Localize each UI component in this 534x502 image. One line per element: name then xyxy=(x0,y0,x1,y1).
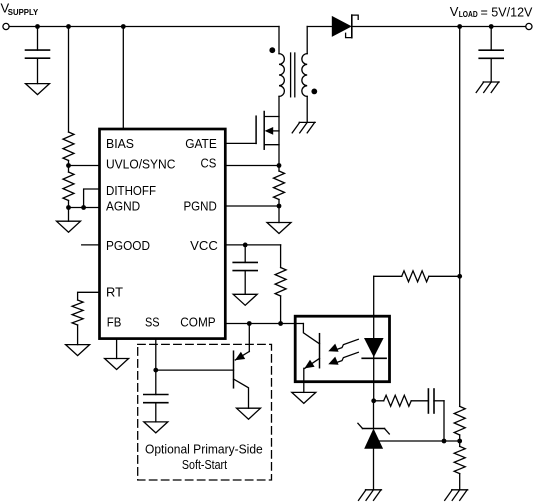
svg-text:SUPPLY: SUPPLY xyxy=(8,8,39,17)
capacitor output xyxy=(479,27,503,83)
resistor current sense xyxy=(274,171,285,200)
wire opto LED anode xyxy=(374,275,402,277)
wire LED bias resistor to VLOAD xyxy=(429,275,460,277)
wire PGND pin xyxy=(225,205,279,207)
wire UVLO/SYNC pin xyxy=(69,165,100,167)
transformer T1 secondary winding xyxy=(302,27,307,123)
capacitor VCC bypass xyxy=(233,245,257,294)
node DITHOFF junction xyxy=(81,205,86,210)
node VSUPPLY label xyxy=(1,1,39,17)
input terminal xyxy=(3,23,9,29)
svg-text:Soft-Start: Soft-Start xyxy=(182,457,228,472)
wire RC mid xyxy=(411,400,428,402)
diode opto LED xyxy=(362,276,386,401)
transistor Q2 soft-start PNP xyxy=(234,351,250,408)
wire COMP to transistor emitter xyxy=(248,324,250,352)
ground divider chassis xyxy=(445,490,468,501)
svg-text:SS: SS xyxy=(145,315,160,330)
output terminal xyxy=(526,23,532,29)
op-amp U1 controller IC box xyxy=(100,129,226,339)
wire pull-up bottom xyxy=(280,296,282,324)
wire secondary to diode anode xyxy=(307,26,332,28)
capacitor compensation xyxy=(428,389,444,413)
svg-text:CS: CS xyxy=(201,155,217,170)
wire RT pin xyxy=(78,292,100,300)
wire UVLO mid xyxy=(68,161,70,173)
resistor divider lower xyxy=(454,446,465,473)
svg-text:GATE: GATE xyxy=(185,136,217,151)
svg-text:BIAS: BIAS xyxy=(106,136,134,151)
wire RC to reference node xyxy=(443,401,445,441)
ground power stage xyxy=(267,223,291,234)
node output junction to C-out xyxy=(489,24,494,29)
svg-text:PGOOD: PGOOD xyxy=(106,238,150,253)
resistor UVLO lower xyxy=(63,172,74,201)
wire FB pin to ground xyxy=(116,340,118,359)
svg-text:VCC: VCC xyxy=(190,238,218,253)
wire opto light arrow upper xyxy=(328,339,358,351)
transformer T1 primary winding xyxy=(279,27,284,97)
svg-text:V: V xyxy=(450,4,459,19)
wire VCC pin xyxy=(225,244,280,246)
node input rail junction to BIAS xyxy=(121,24,126,29)
node divider junction to opto pull-up xyxy=(457,274,462,279)
node PGND junction xyxy=(277,204,282,209)
wire compensation RC start xyxy=(374,400,384,402)
wire RT bottom xyxy=(77,325,79,345)
diode shunt regulator TL431 xyxy=(358,401,389,490)
transistor Q1 power MOSFET xyxy=(256,96,279,165)
wire UVLO bottom xyxy=(68,201,70,222)
wire reference line xyxy=(377,440,460,442)
resistor compensation xyxy=(384,395,412,406)
node COMP junction to soft-start xyxy=(247,321,252,326)
wire CS to sense resistor xyxy=(278,166,280,172)
svg-text:COMP: COMP xyxy=(180,315,215,330)
wire input rail xyxy=(9,26,279,28)
wire output rail xyxy=(352,26,526,28)
ground RT xyxy=(66,345,90,356)
node LED cathode junction xyxy=(371,398,376,403)
resistor UVLO upper xyxy=(63,132,74,161)
resistor divider upper xyxy=(454,406,465,435)
ground opto emitter xyxy=(292,392,316,403)
svg-text:FB: FB xyxy=(107,315,122,330)
pin label BIAS xyxy=(106,136,218,329)
capacitor soft-start xyxy=(144,395,168,422)
ground VCC cap xyxy=(233,294,257,305)
node VLOAD label xyxy=(450,4,533,20)
ground UVLO divider xyxy=(57,221,81,232)
svg-text:PGND: PGND xyxy=(184,199,217,214)
wire divider mid xyxy=(459,435,461,446)
wire feedback divider column xyxy=(459,27,461,407)
wire SS to transistor base xyxy=(156,369,234,371)
wire opto light arrow lower xyxy=(328,352,358,364)
svg-text:RT: RT xyxy=(106,285,123,300)
node input rail junction to UVLO divider xyxy=(66,24,71,29)
ground SS cap xyxy=(144,422,168,433)
node AGND junction xyxy=(66,205,71,210)
svg-text:UVLO/SYNC: UVLO/SYNC xyxy=(106,157,175,172)
node soft-start caption xyxy=(145,441,263,472)
ground secondary chassis xyxy=(292,122,315,132)
node soft-start dashed box xyxy=(138,344,272,480)
wire SS pin xyxy=(155,340,157,395)
svg-text:AGND: AGND xyxy=(106,199,140,214)
resistor opto LED bias xyxy=(402,271,429,282)
ground FB xyxy=(105,359,129,370)
svg-text:Optional Primary-Side: Optional Primary-Side xyxy=(145,441,263,456)
diode D1 schottky rectifier xyxy=(332,15,358,37)
svg-text:LOAD: LOAD xyxy=(459,10,478,19)
wire UVLO divider top xyxy=(68,27,70,133)
optocoupler U2 box xyxy=(295,316,389,382)
wire COMP pin xyxy=(225,323,303,325)
svg-text:DITHOFF: DITHOFF xyxy=(106,183,156,198)
ground input cap xyxy=(26,84,50,95)
wire DITHOFF pin xyxy=(84,189,100,208)
wire VCC to pull-up resistor xyxy=(280,245,282,268)
node CS junction xyxy=(277,163,282,168)
node VCC junction xyxy=(243,243,248,248)
transistor opto phototransistor xyxy=(303,324,319,393)
svg-text:= 5V/12V: = 5V/12V xyxy=(481,5,533,20)
node UVLO junction xyxy=(66,163,71,168)
resistor COMP pull-up xyxy=(275,268,286,297)
node secondary polarity dot xyxy=(311,89,317,95)
ground PNP collector xyxy=(237,408,261,419)
wire divider bottom xyxy=(459,474,461,490)
resistor RT xyxy=(72,300,83,325)
node reference junction RC xyxy=(442,439,447,444)
node output junction to divider xyxy=(457,24,462,29)
wire BIAS pin xyxy=(122,27,124,130)
wire AGND pin xyxy=(69,207,100,209)
wire sense resistor bottom xyxy=(278,200,280,223)
node primary polarity dot xyxy=(269,47,275,53)
node reference junction divider xyxy=(457,439,462,444)
wire CS pin xyxy=(225,165,279,167)
transformer T1 core xyxy=(291,53,295,97)
wire GATE pin xyxy=(225,142,256,144)
ground output cap chassis xyxy=(476,82,499,93)
capacitor input bulk xyxy=(26,27,50,84)
node SS junction xyxy=(153,368,158,373)
node COMP junction to pull-up xyxy=(278,321,283,326)
node input rail junction to C-in xyxy=(35,24,40,29)
ground TL431 chassis xyxy=(359,490,382,501)
wire PGOOD stub xyxy=(82,244,100,246)
